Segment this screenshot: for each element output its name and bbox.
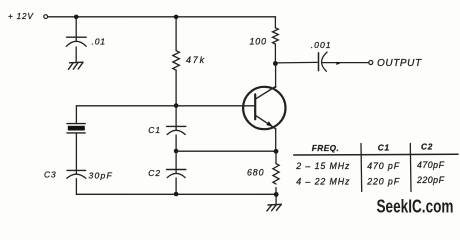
node junction A (bypass tap) bbox=[74, 15, 79, 20]
wire 47k to mid rail bbox=[175, 70, 177, 106]
wire bottom rail bbox=[76, 193, 276, 195]
node emitter junction bbox=[274, 149, 279, 154]
svg-text:220 pF: 220 pF bbox=[366, 176, 400, 186]
wire rail corner to 100 bbox=[274, 17, 276, 28]
+12V terminal bbox=[44, 15, 48, 19]
node mid rail C1 tap bbox=[174, 103, 179, 108]
wire rail to C4 bbox=[75, 17, 77, 41]
wire emitter rail bbox=[176, 150, 276, 152]
wire mid rail corner down to crystal bbox=[75, 106, 77, 124]
svg-text:680: 680 bbox=[247, 167, 264, 177]
svg-text:220pF: 220pF bbox=[416, 175, 445, 185]
wire C1 to emitter rail bbox=[175, 135, 177, 151]
resistor R2 100 bbox=[273, 28, 279, 44]
table horizontal rule bbox=[294, 153, 458, 156]
wire cap to output terminal bbox=[322, 62, 368, 64]
svg-text:470 pF: 470 pF bbox=[367, 161, 400, 171]
wire crystal to C3 bbox=[75, 133, 77, 174]
svg-text:C1: C1 bbox=[148, 125, 161, 135]
svg-text:47k: 47k bbox=[186, 55, 206, 65]
resistor R3 680 bbox=[273, 164, 279, 184]
ground (bypass) bbox=[68, 62, 83, 69]
wire 100 to collector node bbox=[274, 44, 276, 64]
capacitor C1 bbox=[167, 126, 186, 134]
node bottom rail C2 tap bbox=[174, 192, 179, 197]
wire C2 to bottom rail bbox=[175, 178, 177, 194]
svg-text:470pF: 470pF bbox=[417, 160, 445, 170]
wire node to coupling cap bbox=[275, 61, 317, 64]
wire emitter node to 680 bbox=[275, 151, 277, 163]
svg-text:+ 12V: + 12V bbox=[8, 12, 34, 21]
transistor Q1 bbox=[243, 86, 285, 129]
capacitor C4 .01 bbox=[66, 37, 86, 46]
resistor R1 47k bbox=[173, 51, 180, 71]
capacitor C2 bbox=[167, 170, 186, 178]
node collector junction bbox=[273, 61, 278, 66]
table vertical rule 2 bbox=[409, 144, 412, 192]
svg-text:FREQ.: FREQ. bbox=[312, 144, 340, 153]
wire C4 to ground bbox=[75, 47, 77, 62]
wire base rail bbox=[77, 105, 256, 107]
svg-text:100: 100 bbox=[250, 37, 267, 47]
wire emitter rail to C2 bbox=[175, 151, 177, 173]
svg-text:C2: C2 bbox=[148, 168, 161, 178]
node junction B (47k tap) bbox=[174, 15, 179, 20]
svg-text:4 – 22 MHz: 4 – 22 MHz bbox=[296, 176, 350, 186]
crystal Y1 bbox=[67, 124, 85, 133]
svg-text:2 – 15 MHz: 2 – 15 MHz bbox=[295, 161, 350, 171]
wire mid rail to C1 bbox=[175, 106, 177, 130]
arrowhead on output wire bbox=[336, 62, 340, 65]
svg-text:C3: C3 bbox=[44, 169, 57, 179]
wire top rail bbox=[48, 16, 276, 18]
wire rail to 47k bbox=[175, 17, 177, 51]
svg-text:OUTPUT: OUTPUT bbox=[377, 58, 422, 69]
node emitter rail left bbox=[174, 149, 179, 154]
svg-text:SeekIC.com: SeekIC.com bbox=[377, 196, 454, 216]
svg-text:.001: .001 bbox=[311, 40, 332, 50]
capacitor C3 bbox=[67, 170, 86, 178]
ground (emitter) bbox=[267, 204, 282, 211]
wire bottom node to ground bbox=[275, 194, 277, 204]
svg-text:.01: .01 bbox=[92, 37, 106, 47]
svg-text:C2: C2 bbox=[421, 143, 433, 152]
svg-text:C1: C1 bbox=[378, 144, 390, 153]
capacitor C5 .001 bbox=[319, 52, 328, 71]
wire transistor emitter down bbox=[275, 129, 277, 152]
wire 680 to bottom rail bbox=[275, 188, 277, 195]
output terminal bbox=[369, 61, 373, 65]
wire C3 to bottom rail bbox=[75, 179, 77, 195]
table vertical rule 1 bbox=[360, 144, 363, 192]
svg-text:30pF: 30pF bbox=[89, 170, 113, 180]
wire collector bbox=[275, 64, 277, 88]
node bottom rail emitter/ground bbox=[274, 192, 279, 197]
